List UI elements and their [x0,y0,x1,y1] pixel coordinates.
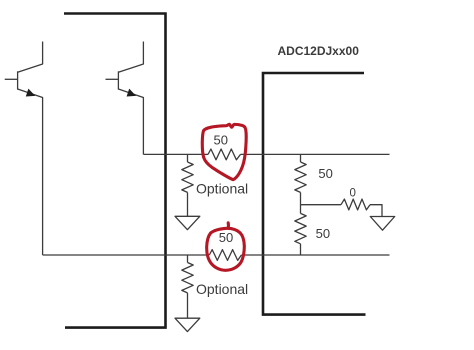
svg-text:0: 0 [350,188,356,200]
svg-text:50: 50 [316,226,330,241]
svg-text:50: 50 [318,166,332,181]
svg-text:50: 50 [214,132,228,147]
svg-text:50: 50 [219,230,233,245]
svg-text:Optional: Optional [196,181,248,197]
svg-text:ADC12DJxx00: ADC12DJxx00 [278,44,360,58]
svg-text:Optional: Optional [196,281,248,297]
